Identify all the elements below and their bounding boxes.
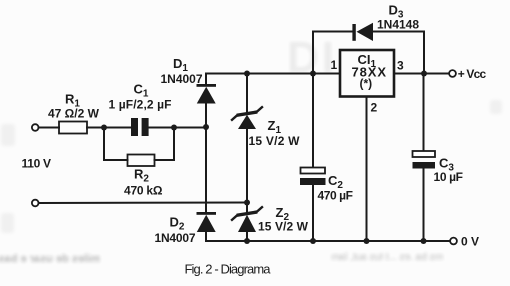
terminal +Vcc output bbox=[449, 70, 456, 77]
svg-text:1 µF/2,2 µF: 1 µF/2,2 µF bbox=[109, 98, 172, 112]
svg-text:1N4007: 1N4007 bbox=[161, 72, 203, 86]
wire D3 loop top left bbox=[313, 31, 353, 33]
junction D3/C3 at output rail bbox=[421, 71, 427, 77]
wire D3 loop right vertical bbox=[423, 32, 425, 74]
wire C2 branch upper bbox=[312, 74, 314, 169]
junction at D1/D2 line bbox=[203, 124, 209, 130]
junction neutral at Z line bbox=[244, 200, 250, 206]
svg-text:10 µF: 10 µF bbox=[434, 170, 464, 184]
capacitor C1 bbox=[131, 118, 149, 136]
svg-text:3: 3 bbox=[397, 59, 404, 73]
junction C3 bottom bbox=[421, 238, 427, 244]
svg-text:1N4007: 1N4007 bbox=[155, 231, 196, 245]
svg-text:Fig. 2 - Diagrama: Fig. 2 - Diagrama bbox=[185, 262, 272, 277]
zener Z1 bbox=[232, 107, 262, 129]
svg-text:miles de usar e bas-: miles de usar e bas- bbox=[0, 253, 100, 265]
resistor R2 bbox=[128, 155, 155, 167]
wire Z1 upper vertical bbox=[246, 74, 248, 114]
wire top rail bbox=[206, 73, 340, 75]
wire D2 to bottom rail bbox=[205, 232, 207, 241]
capacitor C2 bbox=[300, 168, 326, 186]
svg-text:470 kΩ: 470 kΩ bbox=[124, 184, 163, 198]
svg-text:470 µF: 470 µF bbox=[318, 189, 354, 203]
wire D3 loop left vertical bbox=[312, 32, 314, 74]
wire input to R1 bbox=[39, 127, 59, 129]
svg-text:1N4148: 1N4148 bbox=[377, 18, 419, 32]
svg-text:1: 1 bbox=[331, 58, 338, 72]
svg-text:(*): (*) bbox=[360, 77, 373, 91]
wire node B to D1/D2 line bbox=[174, 127, 206, 129]
wire R2 loop right vertical bbox=[173, 128, 175, 161]
regulator CI1 box bbox=[340, 50, 394, 97]
svg-text:47 Ω/2 W: 47 Ω/2 W bbox=[48, 107, 100, 121]
wire D1 branch vertical upper bbox=[205, 74, 207, 86]
terminal 0V output bbox=[450, 238, 457, 245]
svg-text:15 V/2 W: 15 V/2 W bbox=[249, 134, 301, 148]
wire R2 loop left vertical bbox=[103, 128, 105, 161]
svg-text:ms ba .es ...t tus aut, lam: ms ba .es ...t tus aut, lam bbox=[331, 252, 443, 263]
svg-text:110 V: 110 V bbox=[22, 157, 52, 171]
junction C2 bottom bbox=[310, 238, 316, 244]
wire neutral to zener midpoint bbox=[39, 202, 247, 205]
wire pin3 to output bbox=[394, 73, 449, 75]
terminal lower input bbox=[32, 200, 39, 207]
wire C3 branch lower bbox=[423, 169, 425, 242]
svg-text:2: 2 bbox=[371, 101, 378, 115]
wire C2 branch lower bbox=[312, 185, 314, 241]
wire bottom rail bbox=[206, 240, 450, 242]
svg-text:0 V: 0 V bbox=[461, 235, 479, 249]
wire D3 loop top right bbox=[373, 31, 424, 33]
wire R1 to node A bbox=[87, 127, 131, 129]
wire Z1 to neutral node bbox=[246, 129, 248, 203]
svg-text:15 V/2 W: 15 V/2 W bbox=[258, 220, 309, 234]
wire R2 loop bottom left bbox=[104, 159, 128, 161]
junction Z2 bottom bbox=[244, 238, 250, 244]
junction Z1 top bbox=[244, 71, 250, 77]
node B junction bbox=[171, 125, 177, 131]
wire Z2 to bottom rail bbox=[246, 232, 248, 241]
capacitor C3 bbox=[413, 151, 436, 169]
wire pin2 vertical bbox=[366, 97, 368, 242]
terminal upper input bbox=[32, 124, 39, 131]
diode D2 bbox=[197, 212, 217, 232]
junction D3/C2 at top rail bbox=[310, 71, 316, 77]
resistor R1 bbox=[59, 122, 87, 134]
diode D3 bbox=[352, 23, 373, 41]
wire R2 loop bottom right bbox=[155, 159, 175, 161]
wire neutral node to Z2 bbox=[246, 203, 248, 214]
watermark bleed-through smudges bbox=[287, 33, 337, 82]
wire D1/D2 line middle bbox=[205, 127, 207, 213]
wire D1 to C1 node bbox=[205, 104, 207, 128]
junction pin2 bottom bbox=[364, 238, 370, 244]
svg-text:+ Vcc: + Vcc bbox=[458, 67, 487, 81]
node A junction bbox=[101, 125, 107, 131]
diode D1 bbox=[197, 84, 217, 104]
zener Z2 bbox=[232, 207, 262, 232]
wire C3 branch upper bbox=[423, 74, 425, 152]
wire C1 to node B bbox=[149, 127, 174, 129]
